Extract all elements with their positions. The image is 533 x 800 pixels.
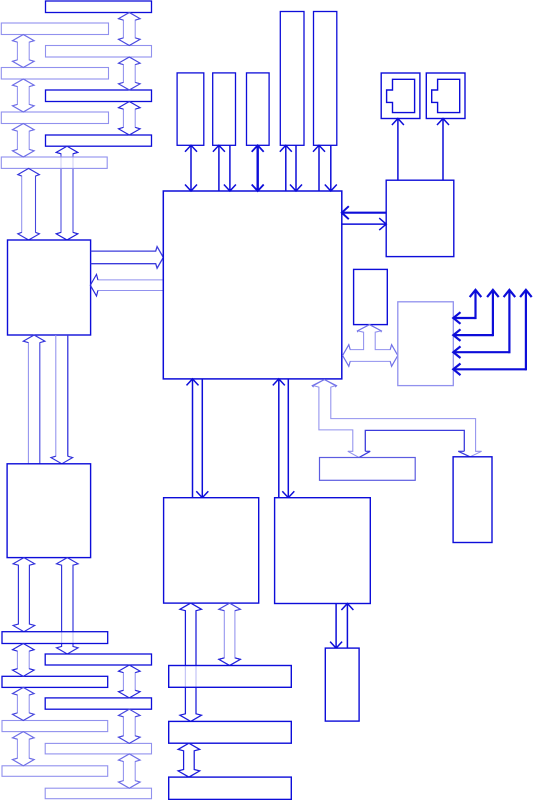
arrow pair U1-B3b [273,379,295,498]
box B3a [164,498,259,603]
antenna arrow A4 [453,290,531,375]
arrow pair S4-U1 [280,145,302,191]
arrow B1 to big box [91,247,164,269]
box W2 [320,458,416,481]
connector J2 outer [426,73,465,119]
bus arrow B2-R1 (crosses L1) [57,558,79,654]
arrow B2 to B1 [23,335,45,464]
bus arrow T3-T4 [119,102,141,136]
box W3 [453,457,492,543]
bus arrow B2-L1 [13,558,35,632]
arrow pair S2-U1 [213,145,236,191]
arrow E1 to U1 [342,206,386,219]
slot bar TL2 [1,68,108,80]
slot bar R4 [45,788,151,799]
slot bar TL4 [1,157,107,168]
arrow S3-U1 [252,145,264,191]
bus arrow T2-T3 [119,57,141,90]
bus pipe U1 to W2 and W3 [314,380,353,452]
bus arrow B3a-bar2 (crosses bar1) [180,603,202,721]
box D1 [325,648,359,721]
arrow U1 to E1 [342,218,386,230]
slot bar T1 [46,1,152,13]
bus arrow TL4-box1 [18,168,40,240]
antenna arrow A1 [453,290,481,324]
slot bar R2 [45,698,151,709]
arrow pair U1-B3a [187,379,209,498]
slot bar L3 [2,721,108,732]
connector J2 jack [432,79,460,112]
box B2 [7,464,91,558]
bus arrow B3a-bar1 [219,603,241,665]
arrow B1 to B2 [51,335,73,464]
slot S2 [213,73,236,145]
slot bar T4 [46,135,152,146]
box E1 [386,180,454,256]
slot bar L1 [2,632,108,644]
box W1 [398,302,454,386]
bus arrow U1-W1 with branch to M1 [343,325,398,367]
slot bar T3 [46,90,152,102]
antenna arrow A2 [453,290,498,341]
box B3b [275,498,371,604]
connector J1 jack [387,79,415,112]
bus arrow L2-L3 [13,687,35,720]
slot bar L4 [2,766,108,777]
arrow big box to B1 [90,274,164,296]
slot S1 [177,73,204,145]
bus arrow T1-T2 [119,13,141,46]
bar C2 [169,721,292,743]
slot S4 tall [280,12,304,146]
bus arrow TL1-TL2 [13,35,35,68]
connector J1 outer [381,73,420,119]
arrow pair S5-U1 [313,145,337,191]
slot bar R1 [45,654,151,665]
arrow E1-J2 [437,119,449,181]
slot bar R3 [45,743,151,754]
arrow pair B3b-D1 [330,604,353,649]
bar C1 [169,666,292,688]
slot bar L2 [2,676,108,687]
bus arrow R1-R2 [119,665,141,698]
arrow E1-J1 [392,119,404,181]
bar C3 [169,777,292,799]
slot bar TL1 [1,23,108,35]
bus arrow R2-R3 [119,709,141,743]
bus arrow bar2-bar3 [178,743,200,777]
bus arrow L3-L4 [13,732,35,766]
box M1 [354,269,388,324]
bus arrow TL2-TL3 [13,79,35,112]
slot S3 [247,73,270,145]
bus arrow TL3-TL4 [13,124,35,158]
big box U1 [163,191,341,379]
box B1 [8,240,91,335]
arrow S1-U1 [185,145,197,191]
bus arrow L1-L2 [13,644,35,677]
slot bar TL3 [1,112,108,124]
bus arrow T4-box1 (crosses TL4) [56,146,78,240]
slot S5 tall [314,12,337,146]
slot bar T2 [46,46,152,58]
bus arrow R3-R4 [119,754,141,788]
antenna arrow A3 [453,290,515,358]
